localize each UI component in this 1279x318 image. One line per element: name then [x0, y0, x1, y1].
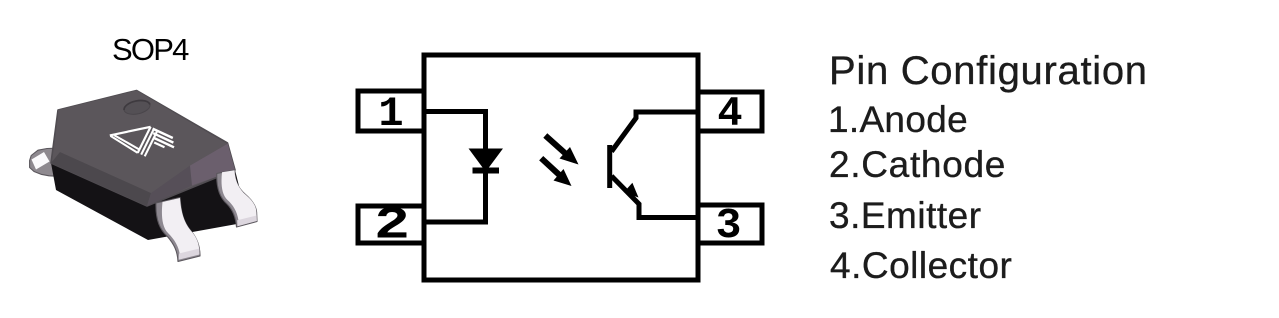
right outer leg — [217, 170, 257, 227]
emitter arrowhead — [624, 183, 639, 198]
SOP4 3D package — [25, 75, 290, 310]
line 3 — [829, 195, 982, 237]
molded top silhouette — [51, 91, 235, 207]
dimple — [123, 98, 152, 116]
wire pin1 to LED anode — [424, 112, 486, 153]
back-left leg — [30, 148, 56, 176]
light arrow 1 — [545, 136, 578, 165]
pin 1 box — [358, 91, 424, 131]
line 2 — [829, 144, 1006, 186]
logo — [110, 127, 174, 157]
svg-text:2: 2 — [374, 201, 410, 252]
LED D1 — [474, 151, 499, 168]
heading — [829, 49, 1148, 94]
SW bevel (dark) — [51, 152, 151, 206]
body (black lower half) — [51, 163, 248, 240]
pin 2 box — [358, 206, 424, 243]
light arrow 2 — [541, 158, 571, 186]
collector wire to pin 4 — [612, 112, 699, 152]
pin 4 box — [698, 92, 762, 131]
svg-text:1: 1 — [378, 90, 403, 138]
right middle leg — [156, 198, 200, 262]
line 1 — [828, 99, 968, 141]
svg-text:3: 3 — [716, 201, 742, 250]
phototransistor Q1 base bar — [607, 145, 612, 188]
emitter wire with arrow to pin 3 — [612, 176, 699, 218]
package outline box — [424, 55, 698, 280]
pin 3 box — [698, 205, 762, 243]
SE bevel shadow part — [147, 166, 192, 207]
package label SOP4 — [112, 32, 188, 68]
top face — [58, 91, 227, 194]
SE bevel (mauve) — [190, 143, 235, 186]
wire LED cathode to pin2 — [424, 168, 486, 222]
line 4 — [830, 245, 1012, 287]
svg-text:4: 4 — [717, 90, 742, 138]
